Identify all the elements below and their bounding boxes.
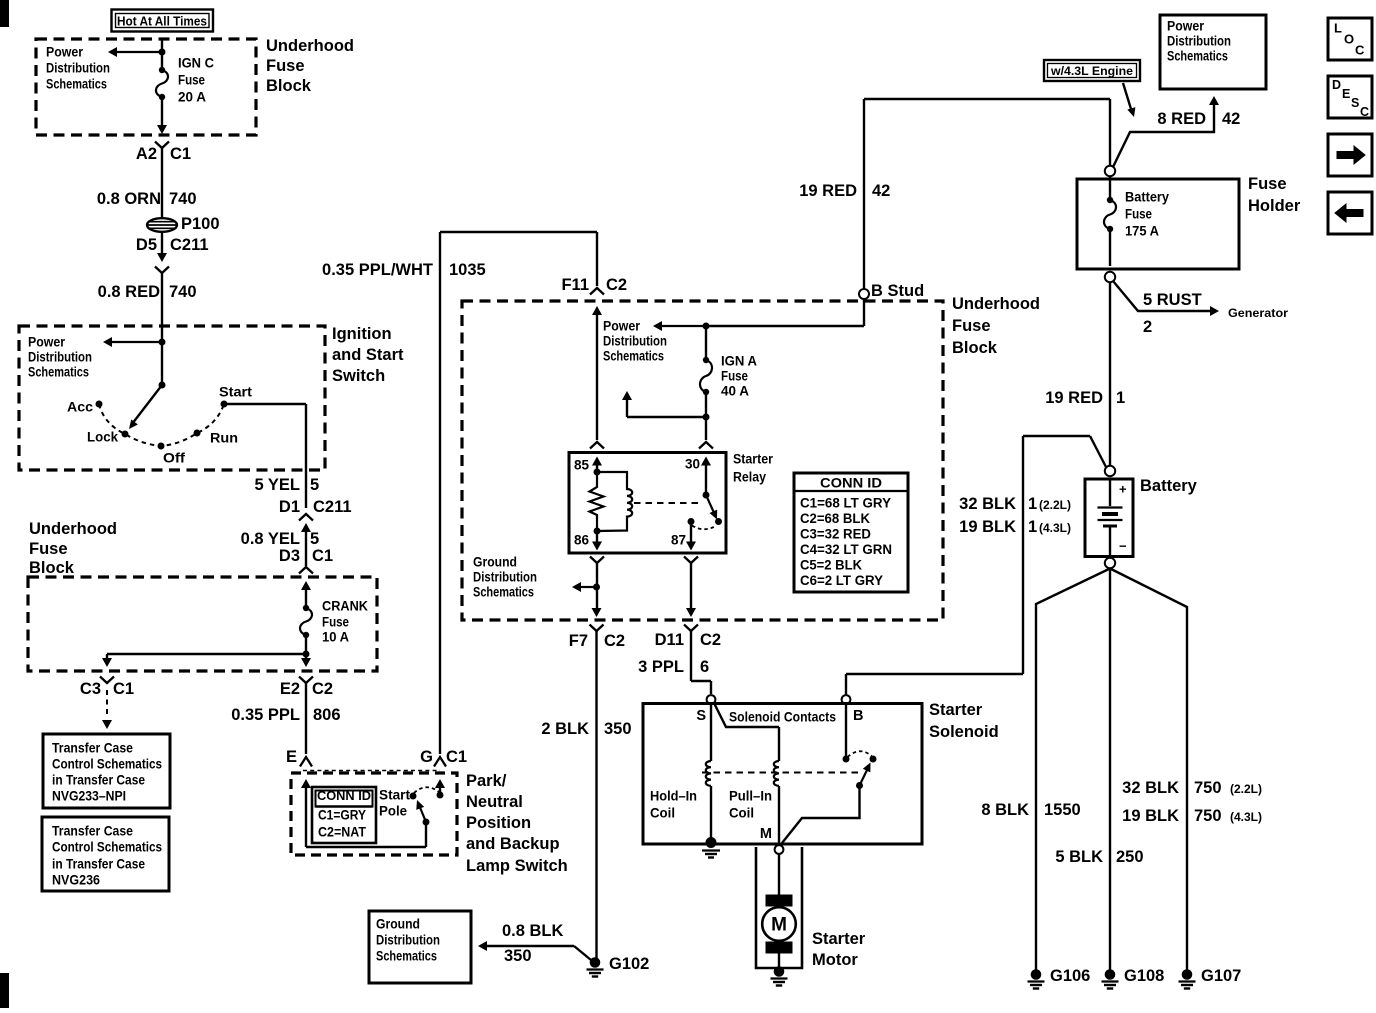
relay coil (597, 472, 632, 531)
svg-text:19 BLK: 19 BLK (1122, 807, 1179, 825)
arrow out of fuse block (157, 125, 167, 134)
svg-text:8 BLK: 8 BLK (981, 801, 1029, 819)
svg-text:Position: Position (466, 814, 531, 832)
terminal battery negative (1105, 558, 1115, 568)
starter relay box (569, 453, 726, 554)
arrow out of fuse block at F7 (592, 608, 602, 617)
svg-text:175 A: 175 A (1125, 224, 1159, 239)
wire 19 RED 1 (1109, 282, 1111, 466)
svg-text:O: O (1344, 32, 1354, 47)
motor ground (778, 954, 780, 969)
svg-text:32 BLK: 32 BLK (959, 495, 1016, 513)
wire into switch (161, 326, 163, 385)
wire below IGN C fuse (161, 100, 163, 125)
svg-text:C1: C1 (446, 748, 467, 766)
svg-text:C3=32 RED: C3=32 RED (800, 527, 871, 542)
svg-text:D: D (1332, 78, 1341, 92)
icon box LOC (1328, 18, 1372, 60)
svg-text:10 A: 10 A (322, 630, 349, 645)
svg-text:G108: G108 (1124, 967, 1164, 985)
battery box (1085, 479, 1133, 557)
svg-text:NVG233–NPI: NVG233–NPI (52, 789, 126, 804)
ground G107 (1182, 969, 1193, 980)
svg-text:D5: D5 (136, 236, 157, 254)
wire along switch bottom (306, 846, 426, 848)
wire to Generator 5 RUST 2 (1113, 281, 1211, 311)
node junction B stud feed (703, 323, 710, 330)
CONN ID box (park/neutral) (312, 787, 376, 843)
svg-text:2 BLK: 2 BLK (541, 720, 589, 738)
svg-text:B Stud: B Stud (871, 282, 924, 300)
scan bar top-left (0, 0, 9, 27)
svg-text:and Start: and Start (332, 346, 404, 364)
battery cell symbol (1109, 479, 1111, 506)
svg-text:5 RUST: 5 RUST (1143, 291, 1202, 309)
wire E2 down (305, 654, 307, 659)
svg-text:C2=NAT: C2=NAT (318, 825, 367, 840)
svg-text:Fuse: Fuse (952, 317, 991, 335)
svg-text:C2: C2 (606, 276, 627, 294)
svg-text:(4.3L): (4.3L) (1230, 810, 1262, 824)
wire B stud riser (863, 99, 865, 289)
wire pin86 to F7 (596, 563, 598, 609)
svg-text:Start: Start (379, 788, 410, 803)
pin 87 (688, 518, 695, 525)
svg-text:250: 250 (1116, 848, 1144, 866)
arrow into fuse block at F11 (592, 306, 602, 315)
svg-text:and Backup: and Backup (466, 835, 560, 853)
svg-text:Block: Block (952, 339, 998, 357)
reference box Transfer Case NVG233-NPI (43, 734, 170, 808)
relay contact pin 30 (701, 457, 711, 466)
wire from Hot At All Times (161, 39, 163, 67)
reference box Transfer Case NVG236 (42, 817, 169, 891)
svg-text:(2.2L): (2.2L) (1230, 782, 1262, 796)
icon box previous arrow (1328, 192, 1372, 234)
svg-text:Lock: Lock (87, 430, 118, 445)
svg-text:Start: Start (219, 385, 253, 400)
svg-text:G102: G102 (609, 955, 649, 973)
svg-text:740: 740 (169, 190, 197, 208)
park/neutral switch dashed box (291, 773, 457, 855)
svg-text:Solenoid Contacts: Solenoid Contacts (729, 710, 836, 725)
switch position arc (99, 404, 224, 446)
terminal B (842, 695, 851, 704)
svg-text:Power: Power (28, 335, 66, 350)
pull-in coil (774, 761, 779, 786)
svg-text:−: − (1119, 539, 1127, 554)
wire contact arm to M (782, 786, 860, 844)
wire from Start to D1 (224, 403, 306, 405)
svg-text:19 BLK: 19 BLK (959, 518, 1016, 536)
svg-text:C1: C1 (312, 547, 333, 565)
terminal fuse holder bottom (1105, 272, 1115, 282)
svg-text:IGN A: IGN A (721, 354, 757, 369)
svg-text:G: G (420, 748, 433, 766)
connector A2 C1 (155, 142, 169, 149)
svg-text:Fuse: Fuse (322, 615, 349, 630)
arrow from w/4.3L Engine (1123, 83, 1131, 109)
svg-text:350: 350 (604, 720, 632, 738)
svg-text:C211: C211 (313, 498, 352, 516)
svg-text:Coil: Coil (650, 806, 675, 821)
svg-text:85: 85 (574, 458, 590, 473)
svg-text:+: + (1119, 482, 1127, 497)
pass-through P100 (147, 218, 177, 232)
wire battery to G107 (1110, 569, 1187, 971)
svg-text:C211: C211 (170, 236, 209, 254)
svg-text:Schematics: Schematics (603, 349, 664, 364)
svg-text:20 A: 20 A (178, 90, 206, 105)
hold-in coil (710, 704, 712, 761)
pin 86 (596, 531, 598, 546)
svg-text:1: 1 (1028, 495, 1037, 513)
wire 0.8 RED 740 (161, 273, 163, 326)
svg-text:0.35 PPL/WHT: 0.35 PPL/WHT (322, 261, 433, 279)
svg-text:750: 750 (1194, 779, 1222, 797)
svg-text:S: S (696, 708, 706, 724)
svg-text:Power: Power (603, 319, 641, 334)
connector E2 C2 (299, 677, 313, 684)
svg-text:Power: Power (46, 45, 84, 60)
svg-text:19 RED: 19 RED (799, 182, 857, 200)
svg-text:C1=68 LT GRY: C1=68 LT GRY (800, 496, 891, 511)
svg-text:Distribution: Distribution (603, 334, 667, 349)
node relay coil bottom (594, 528, 601, 535)
svg-text:Schematics: Schematics (473, 585, 534, 600)
svg-text:Solenoid: Solenoid (929, 723, 999, 741)
svg-text:IGN C: IGN C (178, 56, 214, 71)
starter solenoid box (643, 704, 922, 845)
svg-text:Ignition: Ignition (332, 325, 392, 343)
svg-text:C1: C1 (113, 680, 134, 698)
svg-text:Distribution: Distribution (473, 570, 537, 585)
svg-text:5: 5 (310, 476, 319, 494)
arrow to Power Distribution Schematics (ignition) (112, 341, 162, 343)
arrow to Power Distribution Schematics (117, 51, 162, 53)
connector into relay pin 85 (590, 442, 604, 449)
svg-text:Lamp Switch: Lamp Switch (466, 857, 568, 875)
underhood fuse block (middle) dashed box (462, 301, 943, 620)
dashed contact arc (414, 787, 439, 793)
svg-text:3 PPL: 3 PPL (638, 658, 684, 676)
terminal fuse holder top (1105, 166, 1115, 176)
fuse IGN C 20A (159, 67, 165, 73)
svg-text:C4=32 LT GRN: C4=32 LT GRN (800, 542, 892, 557)
svg-text:806: 806 (313, 706, 341, 724)
solenoid internal ground (706, 837, 717, 848)
underhood fuse block (lower) dashed box (28, 577, 377, 671)
svg-text:Schematics: Schematics (28, 365, 89, 380)
svg-text:C2: C2 (604, 632, 625, 650)
icon box DESC (1328, 76, 1372, 118)
svg-text:Underhood: Underhood (266, 37, 354, 55)
arrow to Ground Distribution Schematics (middle) (581, 586, 597, 588)
svg-text:1550: 1550 (1044, 801, 1081, 819)
svg-text:Pull–In: Pull–In (729, 789, 772, 804)
svg-text:Run: Run (210, 431, 238, 446)
svg-text:G106: G106 (1050, 967, 1090, 985)
arrow into fuse block at D3 (301, 581, 311, 590)
svg-text:Motor: Motor (812, 951, 858, 969)
svg-text:42: 42 (872, 182, 890, 200)
label Hot At All Times (112, 10, 214, 32)
arrow to Power Distribution Schematics (middle) (662, 325, 706, 327)
svg-text:C2: C2 (700, 631, 721, 649)
svg-text:A2: A2 (136, 145, 157, 163)
svg-text:0.8 BLK: 0.8 BLK (502, 922, 564, 940)
svg-text:CRANK: CRANK (322, 599, 368, 614)
svg-text:Control Schematics: Control Schematics (52, 840, 162, 855)
svg-text:Block: Block (29, 559, 75, 577)
svg-text:C2=68 BLK: C2=68 BLK (800, 511, 870, 526)
svg-text:Transfer Case: Transfer Case (52, 741, 133, 756)
svg-text:Distribution: Distribution (376, 933, 440, 948)
svg-text:Holder: Holder (1248, 197, 1301, 215)
svg-text:Distribution: Distribution (1167, 34, 1231, 49)
connector below relay pin 86 (590, 557, 604, 564)
svg-text:C: C (1355, 43, 1365, 58)
svg-text:1035: 1035 (449, 261, 486, 279)
wire pin87 to D11 (690, 563, 692, 609)
reference box Ground Distribution Schematics (369, 911, 471, 983)
arrow from Ground Distribution Schematics (478, 941, 487, 951)
svg-text:C5=2 BLK: C5=2 BLK (800, 558, 862, 573)
wire to C3 (107, 653, 306, 655)
fuse CRANK 10A (303, 605, 309, 611)
svg-text:Underhood: Underhood (952, 295, 1040, 313)
svg-text:Battery: Battery (1125, 190, 1169, 205)
terminal S (707, 695, 716, 704)
svg-text:350: 350 (504, 947, 532, 965)
svg-text:G107: G107 (1201, 967, 1241, 985)
svg-text:19 RED: 19 RED (1045, 389, 1103, 407)
svg-text:P100: P100 (181, 215, 220, 233)
svg-text:0.8 ORN: 0.8 ORN (97, 190, 161, 208)
motor brush top (766, 895, 793, 907)
svg-text:Power: Power (1167, 19, 1205, 34)
svg-text:5 YEL: 5 YEL (254, 476, 300, 494)
svg-text:Pole: Pole (379, 804, 407, 819)
svg-text:Fuse: Fuse (29, 540, 68, 558)
arrow out of fuse block at D11 (686, 608, 696, 617)
svg-text:Block: Block (266, 77, 312, 95)
starter motor housing (756, 847, 802, 968)
svg-text:(2.2L): (2.2L) (1039, 498, 1071, 512)
arrow out at G (435, 779, 445, 788)
svg-text:Distribution: Distribution (28, 350, 92, 365)
wire 0.35 PPL 806 (305, 683, 307, 754)
connector F11 C2 (590, 288, 604, 295)
scan bar bottom-left (0, 973, 9, 1008)
svg-text:0.8 YEL: 0.8 YEL (241, 530, 300, 548)
svg-text:M: M (771, 915, 787, 936)
svg-text:Fuse: Fuse (266, 57, 305, 75)
svg-text:Generator: Generator (1228, 306, 1288, 320)
svg-text:Battery: Battery (1140, 477, 1198, 495)
wire 0.35 PPL/WHT 1035 (439, 232, 441, 754)
svg-text:87: 87 (671, 533, 686, 548)
park/neutral pole pivot (423, 819, 430, 826)
pull-in coil feed from S (714, 703, 779, 727)
svg-text:CONN ID: CONN ID (317, 789, 371, 803)
solenoid contact B side (845, 704, 847, 759)
svg-text:Fuse: Fuse (1125, 207, 1152, 222)
svg-text:C2: C2 (312, 680, 333, 698)
svg-text:40 A: 40 A (721, 384, 749, 399)
node relay coil top (594, 469, 601, 476)
ground G102 (590, 957, 601, 968)
connector C1 boundary dashed line (303, 770, 440, 772)
svg-text:Coil: Coil (729, 806, 754, 821)
svg-text:L: L (1334, 21, 1342, 36)
svg-text:5 BLK: 5 BLK (1055, 848, 1103, 866)
svg-text:Control Schematics: Control Schematics (52, 757, 162, 772)
fuse holder box (1077, 179, 1239, 269)
svg-text:Starter: Starter (812, 930, 866, 948)
svg-text:8 RED: 8 RED (1157, 110, 1206, 128)
svg-text:Relay: Relay (733, 470, 766, 485)
svg-text:2: 2 (1143, 318, 1152, 336)
svg-text:Neutral: Neutral (466, 793, 523, 811)
motor armature M (762, 907, 796, 941)
svg-text:Fuse: Fuse (178, 73, 205, 88)
reference box Power Distribution Schematics (top right) (1160, 15, 1266, 89)
svg-text:Starter: Starter (929, 701, 983, 719)
svg-text:Starter: Starter (733, 452, 774, 467)
terminal battery positive (1105, 466, 1115, 476)
svg-text:CONN ID: CONN ID (820, 475, 882, 491)
svg-text:Ground: Ground (376, 917, 420, 932)
wire top horizontal 19 RED 42 (864, 98, 1110, 100)
ground G106 (1031, 969, 1042, 980)
wire 0.8 BLK 350 (574, 946, 591, 960)
svg-text:C: C (1360, 105, 1369, 119)
wire M to motor (778, 854, 780, 895)
svg-text:42: 42 (1222, 110, 1240, 128)
ignition and start switch dashed box (19, 326, 325, 470)
svg-text:F11: F11 (561, 276, 589, 294)
node junction at IGN C (159, 49, 166, 56)
svg-text:740: 740 (169, 283, 197, 301)
svg-text:Fuse: Fuse (1248, 175, 1287, 193)
wire battery to G108 (1109, 569, 1111, 971)
svg-text:Underhood: Underhood (29, 520, 117, 538)
connector D11 C2 (684, 625, 698, 632)
CONN ID table (794, 473, 908, 592)
arrow into switch at E (301, 779, 311, 788)
svg-text:S: S (1351, 96, 1359, 110)
svg-text:E: E (1342, 87, 1350, 101)
wire solenoid B to battery (845, 674, 847, 695)
svg-text:C6=2 LT GRY: C6=2 LT GRY (800, 573, 883, 588)
svg-text:5: 5 (310, 530, 319, 548)
node junction below IGN A (705, 395, 707, 440)
connector F7 C2 (590, 625, 604, 632)
svg-text:32 BLK: 32 BLK (1122, 779, 1179, 797)
svg-text:1: 1 (1028, 518, 1037, 536)
pin 85 (592, 457, 602, 466)
dashed wire to Transfer Case (106, 690, 108, 717)
underhood fuse block (top) dashed box (36, 39, 256, 135)
solenoid contact moving side (870, 756, 877, 763)
svg-text:C3: C3 (80, 680, 101, 698)
relay resistor (590, 472, 604, 531)
svg-text:D11: D11 (655, 631, 684, 649)
connector C3 C1 (100, 677, 114, 684)
label box w/4.3L Engine (1044, 60, 1140, 81)
svg-text:750: 750 (1194, 807, 1222, 825)
arrow up to Power Distribution Schematics (IGN A) (627, 416, 706, 418)
wire 0.8 ORN 740 (161, 148, 163, 218)
svg-text:Park/: Park/ (466, 772, 507, 790)
contact dot G side (437, 792, 444, 799)
svg-text:B: B (853, 708, 863, 724)
svg-text:6: 6 (700, 658, 709, 676)
svg-text:in Transfer Case: in Transfer Case (52, 857, 145, 872)
svg-text:F7: F7 (569, 632, 588, 650)
svg-text:Fuse: Fuse (721, 369, 748, 384)
node ground distribution tap (593, 584, 600, 591)
svg-text:E: E (286, 748, 297, 766)
svg-text:Transfer Case: Transfer Case (52, 824, 133, 839)
solenoid contact arm (856, 782, 863, 789)
svg-text:C1: C1 (170, 145, 191, 163)
ground G108 (1105, 969, 1116, 980)
svg-text:0.8 RED: 0.8 RED (98, 283, 160, 301)
dashed link coil to contact (634, 502, 698, 504)
svg-text:30: 30 (685, 457, 700, 472)
svg-text:Switch: Switch (332, 367, 385, 385)
svg-text:NVG236: NVG236 (52, 873, 100, 888)
svg-text:Schematics: Schematics (376, 949, 437, 964)
svg-text:Schematics: Schematics (46, 77, 107, 92)
svg-text:86: 86 (574, 533, 590, 548)
arrow into Power Distribution Schematics box (1209, 96, 1219, 105)
svg-text:D3: D3 (279, 547, 300, 565)
terminal B Stud (859, 289, 869, 299)
contact dot Start Pole (410, 793, 417, 800)
svg-text:M: M (760, 826, 772, 842)
svg-text:Schematics: Schematics (1167, 49, 1228, 64)
icon box next arrow (1328, 134, 1372, 176)
wire battery to G106 (1036, 569, 1110, 971)
dashed link coils to contact (702, 772, 862, 774)
node junction below CRANK fuse (305, 638, 307, 654)
svg-text:0.35 PPL: 0.35 PPL (231, 706, 300, 724)
svg-text:Acc: Acc (67, 400, 94, 415)
svg-text:Distribution: Distribution (46, 61, 110, 76)
connector below relay pin 87 (684, 557, 698, 564)
svg-text:in Transfer Case: in Transfer Case (52, 773, 145, 788)
svg-text:w/4.3L Engine: w/4.3L Engine (1050, 64, 1133, 78)
switch position dots Acc Lock Off Run Start (96, 401, 103, 408)
fuse Battery Fuse 175A (1109, 176, 1111, 197)
svg-text:D1: D1 (279, 498, 300, 516)
svg-text:Hold–In: Hold–In (650, 789, 697, 804)
ignition switch wiper arm (159, 382, 166, 389)
svg-text:(4.3L): (4.3L) (1039, 521, 1071, 535)
fuse IGN A 40A (705, 326, 707, 357)
motor brush bottom (766, 942, 793, 954)
svg-text:C1=GRY: C1=GRY (318, 808, 366, 823)
svg-text:Off: Off (163, 451, 186, 466)
svg-text:1: 1 (1116, 389, 1125, 407)
connector into relay pin 30 (699, 442, 713, 449)
svg-text:Ground: Ground (473, 555, 517, 570)
svg-text:Hot At All Times: Hot At All Times (117, 15, 207, 29)
svg-text:E2: E2 (280, 680, 300, 698)
